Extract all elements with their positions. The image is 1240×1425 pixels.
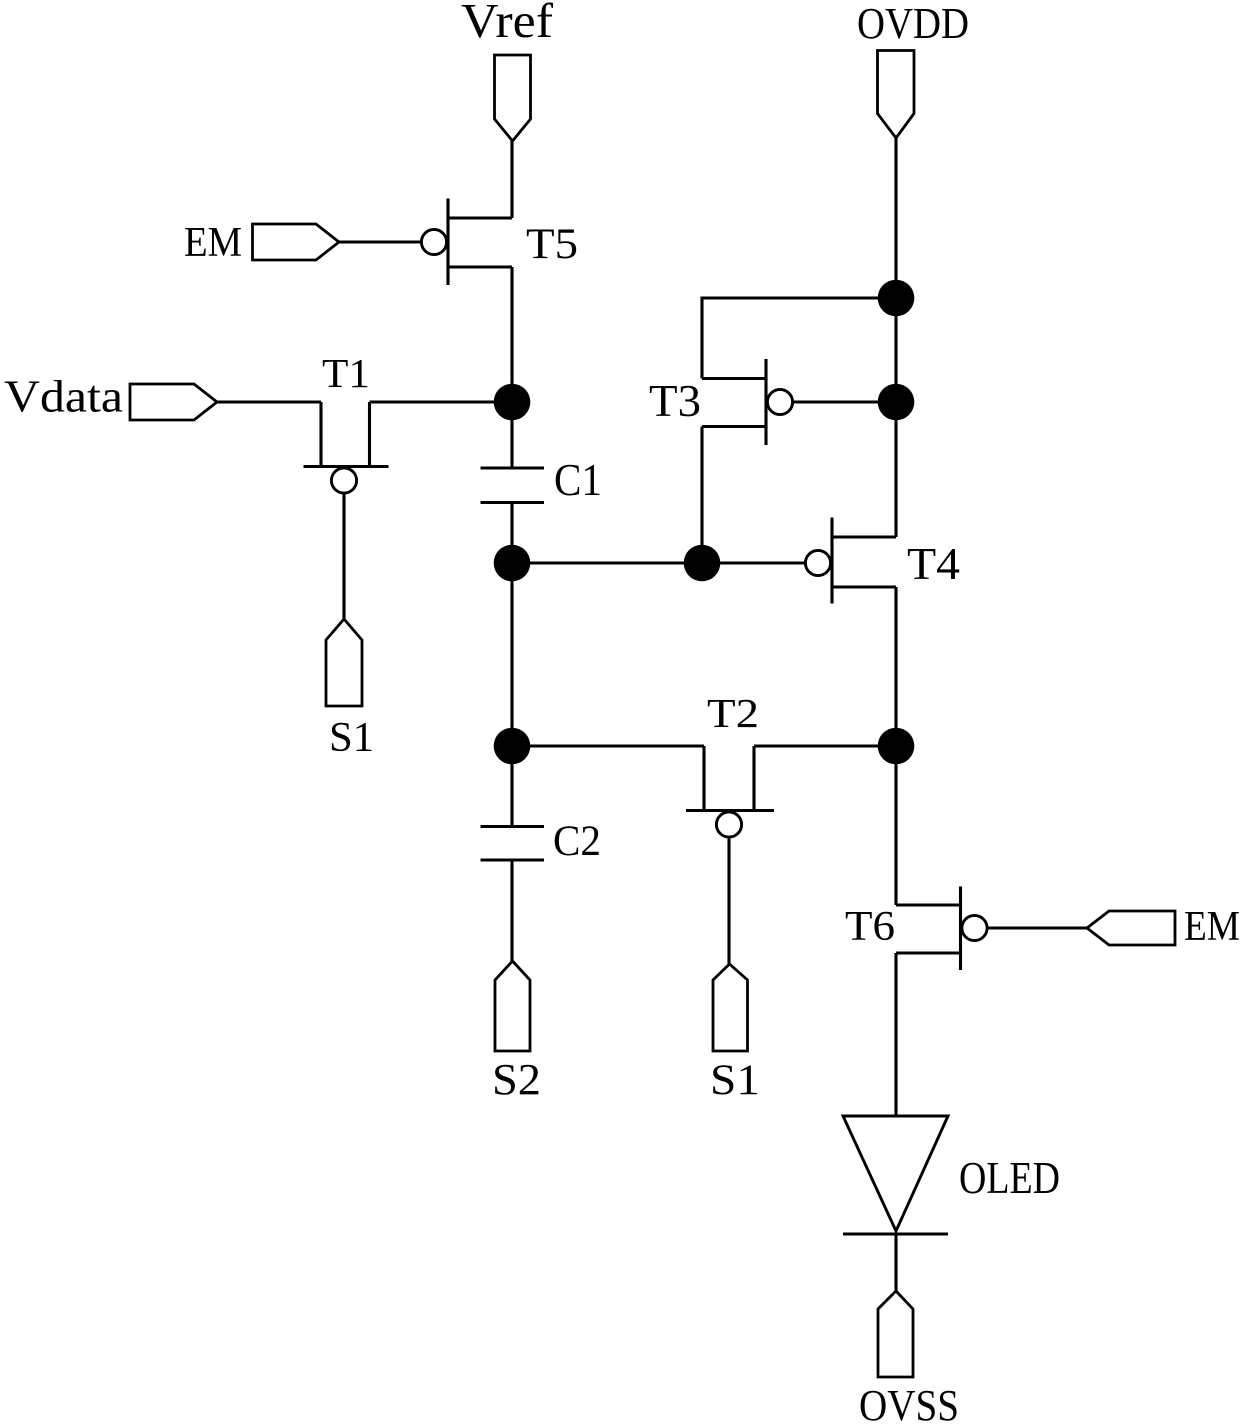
wire OVDD to node C xyxy=(894,138,897,298)
svg-text:S1: S1 xyxy=(329,715,374,761)
wire node G to T2 xyxy=(512,744,704,747)
node A xyxy=(494,384,531,421)
svg-text:EM: EM xyxy=(1184,904,1240,950)
svg-text:Vref: Vref xyxy=(461,0,554,48)
wire node C to node E xyxy=(894,298,897,402)
wire node G to C2 xyxy=(510,746,513,827)
wire T3 gate to node E xyxy=(794,400,896,403)
transistor T4 xyxy=(805,518,896,604)
transistor T6 xyxy=(896,887,987,971)
wire T6 source to OLED anode xyxy=(894,953,897,1116)
terminal EM (right) xyxy=(1087,911,1175,945)
svg-text:EM: EM xyxy=(184,220,242,266)
terminal EM (left) xyxy=(253,224,340,260)
capacitor C1 xyxy=(481,468,545,503)
svg-text:OLED: OLED xyxy=(959,1153,1060,1203)
wire node C to T3 drain xyxy=(702,298,896,379)
wire OLED cathode to OVSS xyxy=(894,1234,897,1292)
wire T2 gate to S1 xyxy=(727,839,730,966)
wire T1 to node A xyxy=(370,400,513,403)
svg-text:S1: S1 xyxy=(710,1057,760,1104)
svg-text:T5: T5 xyxy=(526,221,578,268)
wire node A to C1 xyxy=(510,402,513,468)
terminal Vdata xyxy=(130,384,217,420)
svg-text:T3: T3 xyxy=(649,375,701,426)
svg-text:T6: T6 xyxy=(845,904,895,950)
terminal OVDD xyxy=(878,51,915,139)
svg-text:C2: C2 xyxy=(553,818,601,865)
wire node B to node G xyxy=(510,563,513,746)
wire node F to T6 drain xyxy=(894,746,897,905)
wire C1 to node B xyxy=(510,503,513,564)
capacitor C2 xyxy=(481,827,545,861)
wire T5 source to node A xyxy=(510,267,513,402)
diode OLED xyxy=(843,1116,948,1234)
wire Vdata to T1 xyxy=(217,400,321,403)
wire EM to T5 gate xyxy=(339,240,420,243)
wire Vref to T5 drain xyxy=(510,141,513,218)
wire T6 gate to EM xyxy=(989,926,1088,929)
node E xyxy=(878,384,915,421)
transistor T5 xyxy=(421,199,512,286)
terminal S2 xyxy=(495,961,530,1051)
node D xyxy=(684,545,721,582)
transistor T1 xyxy=(304,402,389,493)
svg-text:T2: T2 xyxy=(707,690,759,736)
node B xyxy=(494,545,531,582)
svg-text:OVSS: OVSS xyxy=(859,1381,959,1425)
terminal S1 (right) xyxy=(713,964,748,1051)
svg-text:T1: T1 xyxy=(322,350,370,396)
wire node E to T4 drain xyxy=(894,402,897,537)
wire T3 source to node D xyxy=(700,427,703,564)
wire C2 to S2 xyxy=(510,860,513,962)
svg-text:OVDD: OVDD xyxy=(857,0,969,48)
svg-text:C1: C1 xyxy=(554,455,602,505)
node F xyxy=(878,728,915,765)
transistor T2 xyxy=(686,746,774,837)
svg-text:T4: T4 xyxy=(907,538,960,589)
transistor T3 xyxy=(702,359,793,445)
terminal OVSS xyxy=(878,1291,913,1377)
svg-text:S2: S2 xyxy=(492,1055,541,1104)
svg-text:Vdata: Vdata xyxy=(4,371,123,422)
wire T4 source to node F xyxy=(894,587,897,746)
node C xyxy=(878,280,915,317)
terminal S1 (left) xyxy=(326,619,362,706)
wire T1 gate to S1 xyxy=(342,495,345,621)
node G xyxy=(494,728,531,765)
wire node B to node D to T4 gate xyxy=(512,561,804,564)
terminal Vref xyxy=(495,55,531,141)
wire T2 to node F xyxy=(754,744,896,747)
